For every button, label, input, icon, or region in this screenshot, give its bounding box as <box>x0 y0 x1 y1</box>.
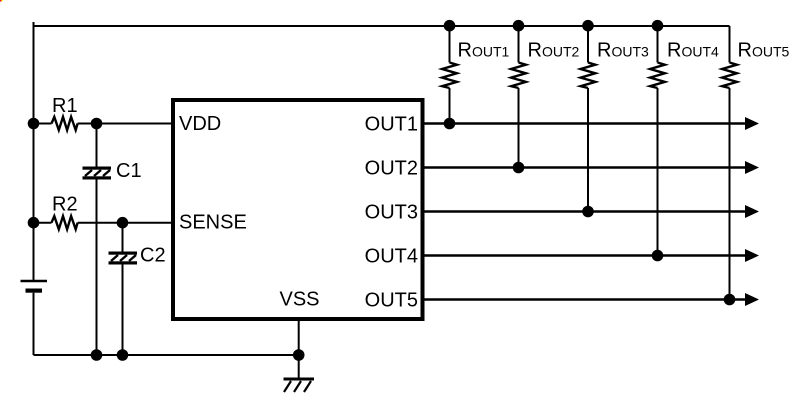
node: left rail / R1 junction <box>28 118 40 130</box>
wire: OUT3 line <box>425 205 760 218</box>
node: top bus / ROUT3 <box>582 20 594 32</box>
svg-text:OUT1: OUT1 <box>365 113 418 135</box>
wire: left supply rail (top section) <box>33 22 35 281</box>
wire: VSS pin to ground bus <box>298 321 300 379</box>
wire: OUT5 line <box>425 293 760 306</box>
svg-text:ROUT1: ROUT1 <box>458 40 510 62</box>
wire: battery negative to ground bus <box>33 293 35 355</box>
node: top bus / ROUT1 <box>444 20 456 32</box>
ground symbol <box>284 379 315 392</box>
wire: ROUT4 to OUT4 <box>657 88 659 256</box>
resistor R1 <box>34 95 78 130</box>
wire: ROUT5 to OUT5 <box>729 88 731 300</box>
wire: top horizontal supply bus <box>34 25 730 27</box>
svg-text:C2: C2 <box>140 245 166 267</box>
resistor ROUT4 <box>650 26 719 88</box>
node: SENSE / C2 junction <box>117 217 129 229</box>
svg-text:OUT3: OUT3 <box>365 201 418 223</box>
wire: OUT4 line <box>425 249 760 262</box>
svg-text:C1: C1 <box>116 160 142 182</box>
svg-text:OUT5: OUT5 <box>365 289 418 311</box>
node: top bus / ROUT2 <box>513 20 525 32</box>
wire: C1 to ground bus <box>96 180 98 356</box>
wire: ROUT1 to OUT1 <box>449 88 451 124</box>
resistor ROUT5 <box>722 26 789 88</box>
svg-text:R2: R2 <box>52 194 78 216</box>
svg-text:SENSE: SENSE <box>179 211 247 233</box>
resistor R2 <box>34 194 78 230</box>
svg-text:ROUT3: ROUT3 <box>597 40 649 62</box>
node: R1 / C1 junction <box>91 118 103 130</box>
node: C1 / ground bus <box>91 349 103 361</box>
corner artifact <box>0 0 1 2</box>
wire: R2 to SENSE pin <box>78 222 171 224</box>
wire: OUT1 line <box>425 117 760 130</box>
svg-text:R1: R1 <box>52 95 78 117</box>
node: top bus / ROUT4 <box>652 20 664 32</box>
svg-text:ROUT2: ROUT2 <box>528 40 580 62</box>
IC U1 <box>173 100 423 319</box>
resistor ROUT3 <box>581 26 649 88</box>
svg-text:ROUT5: ROUT5 <box>738 40 790 62</box>
capacitor C1 <box>83 124 142 183</box>
node: VSS / ground bus <box>293 349 305 361</box>
svg-text:VDD: VDD <box>179 113 221 135</box>
resistor ROUT1 <box>442 26 509 88</box>
wire: R1 to VDD pin <box>78 123 171 125</box>
battery B1 <box>21 281 48 293</box>
svg-text:OUT4: OUT4 <box>365 245 418 267</box>
wire: OUT2 line <box>425 161 760 174</box>
node: C2 / ground bus <box>117 349 129 361</box>
svg-text:OUT2: OUT2 <box>365 157 418 179</box>
wire: ROUT3 to OUT3 <box>587 88 589 212</box>
resistor ROUT2 <box>511 26 579 88</box>
wire: C2 to ground bus <box>122 265 124 356</box>
wire: ROUT2 to OUT2 <box>518 88 520 168</box>
node: left rail / R2 junction <box>28 217 40 229</box>
svg-text:VSS: VSS <box>280 289 320 311</box>
capacitor C2 <box>109 223 166 267</box>
svg-text:ROUT4: ROUT4 <box>667 40 719 62</box>
wire: bottom ground bus <box>34 354 299 356</box>
